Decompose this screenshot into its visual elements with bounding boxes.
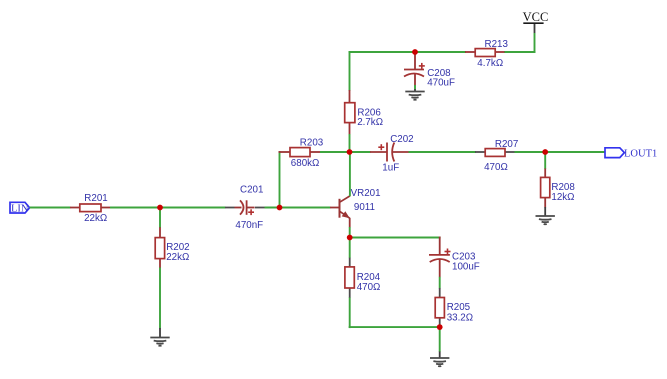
resistor R204 pins (gray) [349,258,351,268]
junction R208 [542,149,548,155]
wire C202 to R207 [409,151,477,153]
svg-text:R207: R207 [495,139,518,150]
svg-text:2.7kΩ: 2.7kΩ [357,117,383,128]
resistor R206 [345,103,355,123]
wire R202 top [159,208,161,228]
resistor R213 [475,49,495,57]
wire top rail left segment [349,51,416,53]
wire junction down to R208 [544,152,546,169]
resistor R206 pins [349,90,351,103]
capacitor C201 right pin [247,207,255,209]
wire collector up [349,152,351,196]
wire R203 to junction [320,151,350,153]
capacitor C203 [439,237,441,255]
wire R206 to mid rail [349,134,351,153]
svg-text:12kΩ: 12kΩ [551,192,574,203]
svg-text:33.2Ω: 33.2Ω [447,312,473,323]
wire VCC down green [534,33,536,52]
wire emitter junction to C203 [350,237,441,239]
wire junction to C202 [350,151,371,153]
resistor R202 [155,238,164,259]
svg-text:R203: R203 [300,138,324,149]
svg-text:470uF: 470uF [427,78,455,89]
svg-text:470Ω: 470Ω [484,162,508,173]
capacitor C203 bottom pin [439,260,441,278]
VCC bar [523,22,543,24]
svg-text:LIN: LIN [11,204,29,215]
wire junction to ground [439,327,441,352]
resistor R205 [435,298,444,318]
svg-text:R201: R201 [84,193,107,204]
wire top rail middle segment [415,51,466,53]
resistor R203 pins [279,151,291,153]
wire emitter down [349,218,351,228]
ground (R202) [150,338,169,346]
junction emitter [347,235,353,241]
svg-text:VCC: VCC [523,10,549,24]
wire R204 to bottom rail [349,298,351,329]
resistor R207 [485,149,505,157]
svg-text:470Ω: 470Ω [357,282,381,293]
svg-text:100uF: 100uF [452,261,480,272]
wire bottom rail [349,326,441,328]
capacitor C202 [370,151,387,153]
resistor R204 [345,267,354,288]
svg-text:C202: C202 [390,134,413,145]
svg-text:R213: R213 [485,39,509,50]
capacitor C201 pins [225,207,235,209]
junction bottom [437,324,443,330]
svg-text:680kΩ: 680kΩ [291,158,320,169]
transistor VR201 base pin [330,207,340,209]
svg-text:VR201: VR201 [351,188,381,199]
wire VCC vertical stub (gray) [534,24,536,33]
wire from top rail down to R206 [349,51,351,91]
wire C201 to base junction [265,207,331,209]
resistor R202 pins [159,227,161,238]
port LIN [10,202,30,213]
svg-text:9011: 9011 [354,202,375,213]
resistor R207 pins (gray) [475,151,485,153]
resistor R203 [290,148,310,157]
svg-text:470nF: 470nF [235,220,263,231]
junction R202 [157,205,163,211]
svg-text:4.7kΩ: 4.7kΩ [477,58,503,69]
wire R207 to LOUT1 [515,151,606,153]
wire R202 to ground [159,268,161,329]
wire R208 to ground [544,207,546,216]
svg-text:22kΩ: 22kΩ [166,252,189,263]
svg-text:22kΩ: 22kΩ [84,213,107,224]
resistor R208 [541,177,550,197]
svg-text:C201: C201 [240,184,263,195]
ground (R208) [536,216,555,224]
junction top rail / C208 [412,49,418,55]
resistor R208 pins [544,169,546,179]
resistor R201 [80,204,101,212]
mid rail: R203 left corner wire down [279,152,281,209]
junction base [277,205,283,211]
wire R201 to C201 [110,207,226,209]
wire R204 branch down [349,238,351,259]
resistor R201 pins [70,207,80,209]
resistor R205 pins (gray) [439,288,441,298]
svg-text:LOUT1: LOUT1 [624,149,657,160]
wire C203 to R205 [439,277,441,289]
wire LIN to R201 [30,207,71,209]
svg-text:1uF: 1uF [382,162,399,173]
wire C208 to ground [414,85,416,90]
ground (bottom) [430,358,449,366]
port LOUT1 [605,148,624,158]
wire top rail right segment [504,51,536,53]
junction mid rail [347,149,353,155]
capacitor C201 [240,200,244,214]
transistor VR201 [339,199,341,218]
capacitor C208 [414,52,416,70]
ground (C208) [405,92,424,100]
resistor R213 pins [465,51,475,53]
